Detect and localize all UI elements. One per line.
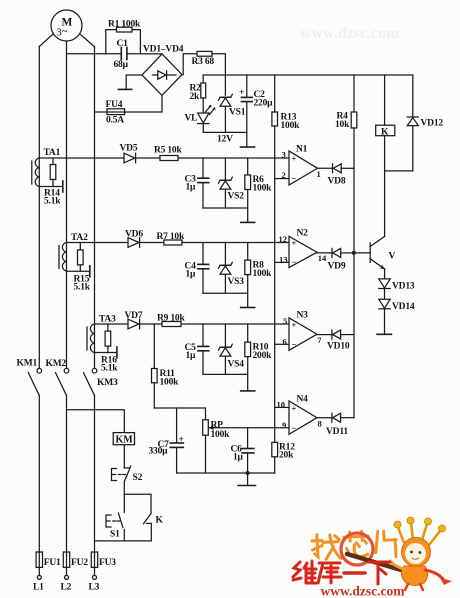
resistor R16 5.1k	[101, 324, 118, 374]
svg-text:5.1k: 5.1k	[44, 197, 61, 207]
svg-text:S2: S2	[133, 473, 143, 483]
capacitor C7 330u	[149, 408, 184, 473]
svg-text:VD1–VD4: VD1–VD4	[143, 45, 184, 55]
fuse FU4 0.5A	[95, 100, 125, 126]
svg-text:1: 1	[317, 169, 321, 179]
motor M 3~	[51, 10, 82, 41]
capacitor C5 1u	[185, 324, 209, 374]
svg-text:+: +	[292, 154, 297, 164]
wire group3 bottom	[203, 373, 248, 375]
svg-text:C1: C1	[117, 39, 129, 49]
svg-text:5.1k: 5.1k	[74, 283, 91, 293]
svg-text:N3: N3	[297, 311, 309, 321]
svg-text:12: 12	[279, 234, 288, 244]
svg-text:−: −	[292, 340, 297, 350]
resistor R2 2k	[190, 75, 206, 113]
svg-text:KM: KM	[116, 435, 134, 446]
svg-text:1μ: 1μ	[233, 453, 244, 463]
ground at bridge left vertex	[118, 75, 142, 89]
svg-text:3: 3	[282, 150, 286, 160]
svg-text:+: +	[292, 320, 297, 330]
resistor R8 100k	[245, 243, 272, 307]
wire 12V rail	[203, 132, 247, 144]
svg-text:−: −	[292, 423, 297, 433]
relay coil KM	[113, 433, 134, 446]
zener VS2	[219, 158, 245, 208]
watermark logo bottom-right (dzsc)	[293, 517, 452, 598]
svg-text:12V: 12V	[217, 135, 233, 145]
svg-text:VD10: VD10	[327, 342, 350, 352]
wire bridge bottom vertex to FU4 row	[125, 95, 162, 112]
svg-text:R1 100k: R1 100k	[108, 19, 141, 29]
svg-text:VS2: VS2	[228, 192, 245, 202]
svg-text:+: +	[292, 238, 297, 248]
svg-text:8: 8	[318, 419, 322, 429]
resistor R10 200k	[245, 324, 272, 390]
svg-text:KM1: KM1	[17, 359, 38, 369]
diode VD9	[328, 248, 355, 271]
svg-text:68μ: 68μ	[114, 60, 129, 70]
op-amp N1	[282, 145, 321, 186]
relay coil K	[376, 75, 395, 138]
current transformer TA2	[59, 233, 88, 271]
svg-text:100k: 100k	[253, 269, 273, 279]
svg-text:2k: 2k	[190, 92, 201, 102]
svg-text:RP: RP	[211, 420, 224, 430]
resistor R12 20k	[272, 442, 295, 473]
diode VD6	[125, 230, 143, 248]
op-amp N4	[277, 395, 322, 435]
svg-text:N1: N1	[296, 145, 308, 155]
wire motor left terminal	[39, 35, 52, 47]
svg-text:+: +	[239, 88, 244, 98]
wire row 1 (TA1 to N1 pin3)	[39, 157, 289, 159]
svg-text:KM3: KM3	[97, 378, 118, 388]
bridge rectifier VD1-VD4	[142, 45, 184, 96]
svg-text:1μ: 1μ	[186, 183, 197, 193]
wire phase line L1 vertical	[38, 47, 40, 553]
wire VD12 to K column	[385, 170, 413, 172]
wire output bus vertical (VD8-VD11)	[353, 128, 355, 418]
pushbutton S2 (NC)	[112, 466, 143, 494]
zener VS1	[219, 94, 246, 132]
fuse FU1	[36, 552, 61, 575]
svg-text:www.dzsc.com: www.dzsc.com	[321, 584, 406, 598]
svg-text:VD8: VD8	[328, 177, 346, 187]
svg-text:R5 10k: R5 10k	[154, 146, 182, 156]
potentiometer RP 100k	[203, 420, 230, 440]
svg-text:10k: 10k	[335, 120, 350, 130]
resistor R5 10k	[154, 146, 182, 161]
svg-text:VD11: VD11	[326, 427, 348, 437]
svg-text:KM2: KM2	[46, 359, 67, 369]
svg-text:FU2: FU2	[71, 558, 88, 568]
wire phase line L2 vertical	[66, 41, 68, 552]
svg-text:VD14: VD14	[392, 302, 415, 312]
svg-text:VD9: VD9	[328, 262, 346, 272]
svg-text:−: −	[292, 257, 297, 267]
svg-text:9: 9	[282, 420, 286, 430]
wire top supply from motor to bridge	[67, 53, 163, 55]
wire phase line L3 vertical	[94, 47, 96, 552]
wire reference bus vertical	[274, 126, 276, 442]
wire motor right terminal	[81, 35, 95, 47]
current transformer TA1	[32, 148, 61, 187]
wire base	[354, 252, 370, 254]
svg-text:330μ: 330μ	[149, 447, 169, 457]
diode VD7	[125, 311, 143, 329]
svg-text:V: V	[389, 252, 396, 262]
wire S2 split node	[124, 494, 151, 513]
svg-text:100k: 100k	[281, 121, 301, 131]
fuse FU3	[91, 552, 116, 575]
contact KM3	[84, 368, 118, 395]
op-amp N2	[279, 229, 328, 268]
svg-text:TA3: TA3	[99, 315, 116, 325]
capacitor C1 68u	[114, 39, 129, 70]
svg-text:R7 10k: R7 10k	[157, 232, 185, 242]
svg-text:+: +	[292, 404, 297, 414]
svg-text:L2: L2	[61, 583, 72, 593]
svg-text:VD13: VD13	[392, 282, 415, 292]
wire L2 to KM coil	[67, 410, 125, 433]
terminal L2	[61, 575, 72, 592]
svg-text:VD5: VD5	[120, 144, 138, 154]
svg-text:R9 10k: R9 10k	[157, 314, 185, 324]
svg-text:14: 14	[318, 253, 327, 263]
transistor V	[370, 236, 395, 269]
ground below R6	[241, 221, 255, 223]
wire TA2 secondary bottom with terminal bar	[67, 266, 90, 277]
svg-text:3~: 3~	[57, 27, 68, 39]
diode VD11	[326, 413, 354, 437]
svg-text:VS3: VS3	[228, 277, 245, 287]
svg-text:TA1: TA1	[44, 148, 61, 158]
svg-text:www.dzsc.com: www.dzsc.com	[300, 25, 400, 42]
contact KM2	[46, 359, 69, 396]
svg-text:VL: VL	[185, 114, 198, 124]
svg-text:100k: 100k	[160, 378, 180, 388]
contact KM1	[17, 359, 42, 396]
resistor R13 100k	[272, 75, 300, 131]
ground below R10	[241, 390, 255, 392]
svg-text:K: K	[156, 516, 164, 526]
svg-text:VS4: VS4	[228, 360, 245, 370]
wire N2 output	[317, 252, 332, 254]
wire RP bottom	[205, 435, 207, 473]
svg-text:FU4: FU4	[106, 100, 123, 110]
wire N2 pin13 stub from bus	[275, 261, 289, 263]
wire N1 pin2 stub from bus	[275, 178, 289, 180]
svg-text:VD6: VD6	[125, 230, 143, 240]
node C6/ground junction	[246, 471, 250, 475]
resistor R9 10k	[157, 314, 185, 327]
pushbutton S1 (NO)	[106, 494, 124, 541]
svg-text:100k: 100k	[253, 184, 273, 194]
wire bridge right vertex riser to R3	[182, 54, 197, 75]
resistor R6 100k	[245, 158, 272, 222]
diode VD8	[328, 164, 355, 187]
svg-text:6: 6	[283, 337, 287, 347]
op-amp N3	[283, 311, 323, 351]
capacitor C3 1u	[185, 158, 209, 208]
wire emitter down	[384, 269, 386, 279]
svg-text:1μ: 1μ	[186, 270, 197, 280]
wire +V rail y75	[203, 74, 413, 76]
svg-text:20k: 20k	[279, 451, 294, 461]
svg-text:5: 5	[283, 316, 287, 326]
wire TA3 secondary bottom with terminal bar	[95, 347, 117, 358]
capacitor C2 220u	[239, 75, 273, 146]
zener VS4	[219, 324, 245, 374]
terminal L1	[33, 575, 44, 592]
wire N3 pin6 stub from bus	[275, 343, 289, 345]
svg-text:L1: L1	[33, 583, 44, 593]
svg-text:−: −	[292, 174, 297, 184]
zener VS3	[219, 243, 245, 294]
svg-text:S1: S1	[110, 530, 120, 540]
wire TA1 secondary bottom with terminal bar	[39, 181, 63, 192]
wire R3 to VS1 column corner	[212, 54, 225, 96]
contact K (relay)	[144, 514, 164, 541]
wire N4 output	[317, 417, 332, 419]
node VD9/base junction	[352, 251, 356, 255]
resistor R7 10k	[157, 232, 185, 245]
svg-text:R3 68: R3 68	[192, 57, 215, 67]
svg-text:7: 7	[317, 335, 322, 345]
diode VD13	[379, 279, 415, 299]
svg-text:VD12: VD12	[421, 119, 444, 129]
wire RP wiper to N4 pin9	[213, 427, 290, 429]
wire K coil to collector	[384, 136, 386, 237]
resistor R4 10k	[335, 75, 357, 130]
resistor R1 100k	[106, 19, 141, 53]
wire N1 output	[318, 167, 333, 169]
svg-text:N2: N2	[297, 229, 309, 239]
wire KM coil to S2	[123, 445, 125, 468]
terminal L3	[89, 575, 100, 592]
svg-text:L3: L3	[89, 583, 100, 593]
svg-text:0.5A: 0.5A	[106, 116, 124, 126]
resistor R14 5.1k	[44, 158, 61, 207]
wire R11 to RP top	[154, 408, 205, 420]
resistor R3 68	[192, 51, 215, 67]
svg-text:N4: N4	[297, 395, 309, 405]
diode VD10	[327, 330, 354, 351]
capacitor C4 1u	[185, 243, 209, 294]
svg-text:FU3: FU3	[99, 558, 116, 568]
svg-text:FU1: FU1	[44, 558, 61, 568]
diode VD14	[379, 299, 415, 333]
current transformer TA3	[87, 315, 116, 353]
wire row 2 (TA2 to N2 pin12)	[67, 242, 290, 244]
svg-text:100k: 100k	[211, 430, 231, 440]
ground below R8	[241, 307, 255, 309]
LED VL	[185, 104, 216, 132]
ground below VD14	[377, 333, 392, 335]
wire row 3 (TA3 to N3 pin5)	[95, 323, 290, 325]
resistor R15 5.1k	[74, 243, 91, 293]
wire group2 bottom	[203, 292, 248, 294]
wire bottom reference rail	[177, 472, 275, 474]
ground below bottom rail	[238, 473, 256, 486]
wire control return to L3	[95, 540, 152, 542]
svg-text:200k: 200k	[253, 351, 273, 361]
wire group1 bottom	[203, 207, 248, 209]
fuse FU2	[63, 552, 88, 575]
capacitor C6 1u	[231, 428, 254, 473]
wire N3 output	[317, 334, 332, 336]
svg-text:VD7: VD7	[125, 311, 143, 321]
resistor R11 100k	[152, 324, 180, 408]
svg-text:5.1k: 5.1k	[101, 364, 118, 374]
svg-text:1μ: 1μ	[186, 351, 197, 361]
ground below C2	[241, 146, 255, 148]
diode VD12	[407, 75, 443, 171]
svg-text:VS1: VS1	[229, 108, 246, 118]
svg-text:220μ: 220μ	[254, 99, 274, 109]
diode VD5	[120, 144, 138, 163]
wire N4 pin10 stub from bus	[275, 406, 289, 408]
svg-text:TA2: TA2	[71, 233, 88, 243]
